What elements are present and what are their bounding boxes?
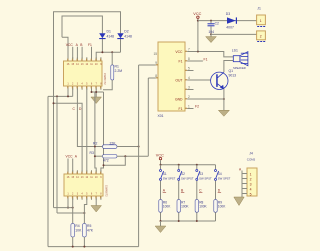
svg-text:100K: 100K: [163, 205, 171, 209]
svg-text:VCC: VCC: [66, 155, 74, 159]
svg-text:VCC: VCC: [193, 12, 201, 16]
resistor R3: [90, 151, 149, 163]
wire U3 pin1 stub: [187, 108, 193, 110]
U3 right pads: [185, 51, 187, 109]
node R2-right: [138, 146, 140, 148]
resistor R4: [71, 224, 82, 247]
svg-text:R2: R2: [93, 142, 97, 146]
svg-text:X01: X01: [158, 114, 164, 118]
wire U3 pin5 stub: [187, 70, 193, 72]
svg-text:F1: F1: [88, 43, 92, 47]
wire collector to speaker: [224, 61, 233, 73]
svg-text:9: 9: [155, 61, 157, 65]
wire x94.9 riser: [95, 92, 96, 172]
speaker LS1: [232, 49, 248, 70]
U2 pin pads top: [67, 172, 101, 174]
wire U3 pin8 stub: [187, 60, 203, 62]
node swb2: [178, 220, 180, 222]
U2 pin pads bottom: [67, 196, 101, 198]
node j2: [56, 95, 58, 97]
wire U3 pin2 gnd: [187, 98, 224, 100]
wire U2 pin2 to R4: [72, 198, 74, 223]
U1 pin numbers inside: [67, 63, 103, 85]
svg-text:100K: 100K: [218, 205, 226, 209]
wire lower rail to J1 pin2: [211, 33, 257, 35]
wire x103.5 down right of U2: [101, 92, 104, 172]
capacitor C2: [208, 21, 220, 35]
wire U2 A riser: [72, 159, 74, 172]
svg-text:SW SPST: SW SPST: [163, 176, 176, 180]
svg-text:VCC: VCC: [156, 153, 164, 157]
U1 pin pads top: [67, 59, 101, 61]
svg-text:J1: J1: [257, 6, 261, 10]
svg-text:VCC: VCC: [66, 43, 74, 47]
power VCC switches: [156, 153, 164, 164]
svg-text:D3: D3: [226, 12, 230, 16]
ground under U1: [91, 97, 102, 104]
resistor R2: [93, 141, 139, 148]
resistor R1: [103, 52, 122, 90]
wire U1 pin5 down to U2: [86, 88, 88, 171]
wire VCC riser: [197, 21, 199, 52]
svg-text:472: 472: [103, 159, 109, 163]
svg-text:100K: 100K: [181, 205, 189, 209]
U3 inside pin names: [175, 50, 183, 111]
wire U2 pin stubs: [68, 170, 101, 200]
wire J4 pins: [242, 171, 247, 194]
wire long vertical x48: [47, 96, 49, 246]
svg-text:LS1: LS1: [232, 49, 238, 53]
node cap-bottom: [210, 33, 212, 35]
svg-text:1: 1: [260, 19, 262, 23]
node emitter-gnd: [223, 98, 225, 100]
node sw-bus1: [160, 164, 162, 166]
svg-text:F2: F2: [195, 105, 199, 109]
wire top bus y52: [96, 52, 120, 61]
IC U3: [158, 42, 186, 118]
node j5: [95, 91, 97, 93]
transistor Q1: [211, 69, 237, 89]
node vcc-top: [197, 20, 199, 22]
resistor R8: [195, 200, 207, 222]
wire emitter down: [223, 89, 225, 111]
node R3-right: [124, 155, 126, 157]
svg-text:104: 104: [208, 30, 214, 34]
wire U1 pin3 to R2: [77, 88, 102, 146]
wire pin1 top riser: [62, 37, 68, 61]
wire U3 pin9 left: [139, 64, 156, 66]
U2 pin numbers inside: [67, 176, 103, 195]
ground under U2: [91, 198, 102, 212]
svg-text:22K: 22K: [110, 141, 117, 145]
wire U2 pin1 drop: [67, 198, 69, 207]
svg-text:15W04T2: 15W04T2: [103, 73, 107, 85]
wire U2 VCC riser: [67, 159, 69, 172]
svg-text:47K: 47K: [87, 229, 94, 233]
wire U3 pin8 left: [148, 77, 156, 79]
svg-text:OUT: OUT: [175, 79, 182, 83]
node sw-bus2: [178, 164, 180, 166]
node j7: [67, 207, 69, 209]
node j3: [53, 102, 55, 104]
svg-text:10K: 10K: [75, 229, 82, 233]
svg-text:J4: J4: [249, 151, 253, 155]
wire switch bottom bus: [161, 220, 216, 222]
wire U1 bottom collector y96: [48, 88, 73, 96]
wire y207 feeder R4: [54, 207, 73, 209]
connector J4: [247, 151, 257, 196]
wire switch top bus: [161, 164, 216, 166]
node bus-R1: [111, 51, 113, 53]
node bus-R4: [72, 246, 74, 248]
wire U3 pin3 stub: [187, 89, 193, 91]
IC U1: [64, 61, 108, 86]
svg-text:15W66T2: 15W66T2: [105, 185, 109, 197]
svg-text:GND: GND: [175, 98, 183, 102]
wire y213 feeder R5: [57, 212, 84, 214]
wire U3 pin4 to base: [187, 79, 211, 81]
svg-text:4: 4: [188, 76, 190, 80]
svg-text:R1: R1: [115, 64, 119, 68]
node R2-left: [94, 146, 96, 148]
node elbow: [103, 164, 105, 166]
node j1: [67, 95, 69, 97]
resistor R7: [177, 200, 189, 222]
wire U1 top risers: [73, 47, 92, 59]
svg-text:100K: 100K: [199, 205, 207, 209]
wire U1 gnd line y92: [92, 88, 104, 97]
switch S3: [196, 165, 212, 200]
power VCC top: [193, 12, 201, 21]
wire inner loop to D1 column: [62, 16, 102, 52]
svg-text:1: 1: [250, 173, 252, 177]
svg-text:R4: R4: [75, 224, 79, 228]
node sw-bus3: [196, 164, 198, 166]
node R3-left: [94, 155, 96, 157]
U3 left pads: [156, 64, 158, 78]
wire outer loop left/top to D2 column: [54, 12, 121, 208]
svg-text:SW SPST: SW SPST: [199, 176, 212, 180]
svg-text:C2: C2: [215, 22, 219, 26]
svg-text:D2: D2: [124, 29, 128, 33]
svg-text:9013: 9013: [229, 73, 237, 77]
U1 pin pads bottom: [67, 86, 101, 88]
diode D3: [226, 12, 237, 30]
node swb3: [196, 220, 198, 222]
resistor R9: [214, 200, 226, 222]
diode D2: [117, 29, 132, 39]
resistor R5: [83, 224, 94, 247]
svg-text:SW SPST: SW SPST: [218, 176, 231, 180]
wire y103 C/D feeder: [54, 103, 83, 171]
svg-text:2: 2: [260, 35, 262, 39]
wire vertical x138.6: [138, 65, 140, 247]
svg-text:F1: F1: [179, 60, 183, 64]
wire vertical x148.3: [147, 78, 149, 156]
svg-text:VCC: VCC: [175, 50, 183, 54]
node j4: [91, 91, 93, 93]
switch S4: [215, 165, 231, 200]
svg-text:CON5: CON5: [247, 157, 256, 161]
svg-text:4148: 4148: [107, 35, 115, 39]
svg-text:2: 2: [250, 178, 252, 182]
node vcc-rail: [197, 51, 199, 53]
svg-text:R5: R5: [87, 224, 91, 228]
svg-text:F1: F1: [179, 107, 183, 111]
node bus-D1: [101, 51, 103, 53]
svg-text:4148: 4148: [124, 35, 132, 39]
svg-text:R3: R3: [90, 151, 94, 155]
node cap-top: [210, 20, 212, 22]
resistor R6: [159, 200, 171, 222]
svg-text:SPEAKER: SPEAKER: [233, 66, 246, 70]
wire R3 elbow to U2 pin8: [104, 156, 126, 165]
connector J1: [257, 6, 266, 42]
svg-text:4007: 4007: [226, 25, 234, 29]
ground switches: [155, 221, 166, 233]
wire U1 pin stubs: [68, 57, 101, 90]
svg-text:15: 15: [153, 52, 157, 56]
ground under C2: [206, 34, 217, 42]
switch S2: [178, 165, 194, 200]
svg-text:8: 8: [155, 74, 157, 78]
switch S1: [160, 165, 176, 200]
svg-text:1: 1: [188, 105, 190, 109]
node bus-R5: [83, 246, 85, 248]
svg-text:8: 8: [188, 57, 190, 61]
svg-text:F1: F1: [204, 57, 208, 61]
diode D1: [99, 29, 114, 39]
svg-text:4: 4: [250, 188, 252, 192]
IC U2: [64, 174, 109, 197]
svg-text:5: 5: [250, 193, 252, 197]
ground J4 arrow: [234, 194, 244, 206]
svg-text:7: 7: [188, 48, 190, 52]
svg-text:3: 3: [188, 86, 190, 90]
svg-text:2.2M: 2.2M: [115, 69, 123, 73]
wire U2 pin5 to R5: [84, 198, 86, 223]
node j9: [83, 212, 85, 214]
svg-text:SW SPST: SW SPST: [181, 176, 194, 180]
ground under Q1: [218, 110, 229, 116]
svg-text:5: 5: [188, 67, 190, 71]
wire top rail to J1 pin1: [198, 20, 257, 22]
wire U3 pin7 VCC rail: [187, 52, 233, 57]
svg-text:2: 2: [188, 95, 190, 99]
svg-text:3: 3: [250, 183, 252, 187]
svg-text:D1: D1: [107, 29, 111, 33]
node swb1: [160, 220, 162, 222]
wire long vertical x57: [56, 96, 58, 213]
wire bottom bus: [48, 246, 139, 248]
node j8: [72, 207, 74, 209]
